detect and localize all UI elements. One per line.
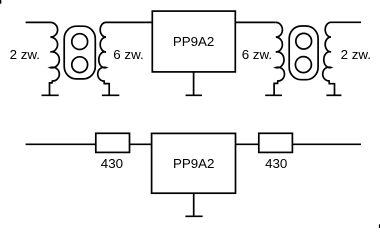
- wire: U2 ground stem: [193, 193, 195, 216]
- resistor R1: [96, 133, 130, 152]
- inductor L3: [274, 22, 284, 95]
- svg-text:PP9A2: PP9A2: [173, 156, 215, 171]
- svg-text:6 zw.: 6 zw.: [242, 47, 272, 62]
- ground (under U2): [185, 215, 202, 217]
- svg-text:2 zw.: 2 zw.: [341, 47, 371, 62]
- screen corner artifact bottom-right: [379, 224, 380, 229]
- core T1 bottom hole: [72, 57, 88, 73]
- wire: R1 to U2: [130, 143, 152, 145]
- wire: L2 to U1: [106, 21, 152, 23]
- IC U1 box: [152, 11, 235, 72]
- ground (under U1): [186, 94, 202, 96]
- ground (under L3): [265, 94, 282, 96]
- inductor L4: [323, 22, 335, 95]
- svg-text:6 zw.: 6 zw.: [113, 47, 143, 62]
- wire: U1 to L3: [235, 21, 275, 23]
- svg-text:PP9A2: PP9A2: [173, 34, 215, 49]
- transformer core T1 (binocular ferrite): [64, 26, 95, 79]
- svg-text:430: 430: [101, 156, 123, 171]
- inductor L2: [98, 22, 109, 95]
- wire: left input to L1: [26, 21, 51, 23]
- core T1 top hole: [72, 34, 88, 50]
- inductor L1: [50, 22, 60, 95]
- core T2 bottom hole: [295, 57, 311, 73]
- wire: U1 ground stem: [193, 72, 195, 95]
- IC U2 box: [152, 133, 236, 193]
- wire: L4 to right output: [331, 21, 361, 23]
- wire: R2 to right output: [292, 143, 361, 145]
- svg-text:430: 430: [265, 156, 287, 171]
- transformer core T2 (binocular ferrite): [289, 26, 318, 80]
- ground (under L1): [42, 94, 59, 96]
- ground (under L2): [102, 94, 119, 96]
- resistor R2: [259, 133, 293, 152]
- ground (under L4): [326, 94, 341, 96]
- svg-text:2 zw.: 2 zw.: [10, 47, 40, 62]
- core T2 top hole: [296, 33, 312, 49]
- screen corner artifact top-left: [0, 0, 1, 4]
- wire: left input to R1: [26, 143, 96, 145]
- wire: U2 to R2: [236, 143, 259, 145]
